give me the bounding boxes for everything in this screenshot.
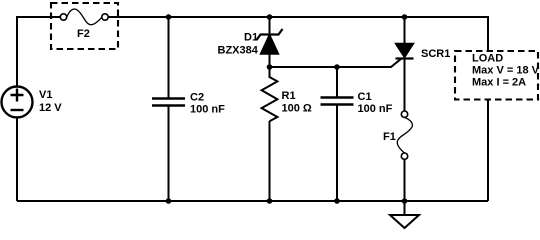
wire: C1 top lead bbox=[336, 67, 338, 97]
wire: D1 anode to gate-rail node bbox=[269, 54, 271, 78]
label D1 value bbox=[218, 32, 259, 57]
wire: top rail from F2 to LOAD corner bbox=[108, 17, 488, 51]
fuse F2 bbox=[60, 9, 108, 25]
svg-text:BZX384: BZX384 bbox=[218, 45, 259, 57]
wire: C2 top lead bbox=[168, 17, 170, 98]
wire: R1 bottom lead bbox=[269, 121, 271, 201]
junction: bottom rail / R1 bbox=[267, 198, 273, 204]
svg-text:C1: C1 bbox=[358, 91, 372, 103]
junction: top rail / SCR1 bbox=[402, 14, 408, 20]
junction: top rail / D1 bbox=[267, 14, 273, 20]
junction: bottom rail / C1 bbox=[334, 198, 340, 204]
wire: gate rail to SCR1 gate bbox=[270, 59, 402, 68]
svg-text:V1: V1 bbox=[39, 89, 52, 101]
load enclosure (dashed) bbox=[455, 51, 538, 100]
wire: C1 bottom lead bbox=[336, 105, 338, 201]
label LOAD ratings bbox=[472, 53, 540, 89]
zener diode D1 bbox=[257, 29, 283, 54]
svg-text:100 Ω: 100 Ω bbox=[282, 103, 312, 115]
junction: gate rail / R1 / D1 bbox=[267, 64, 273, 70]
svg-text:F2: F2 bbox=[77, 28, 90, 40]
capacitor C2 bbox=[152, 99, 185, 106]
label C2 value bbox=[190, 92, 225, 116]
svg-text:C2: C2 bbox=[190, 92, 204, 104]
junction: bottom rail / ground bbox=[402, 198, 408, 204]
resistor R1 bbox=[262, 77, 278, 121]
wire: V1 bottom to bottom rail bbox=[16, 118, 18, 202]
junction: gate rail / C1 bbox=[334, 64, 340, 70]
svg-text:F1: F1 bbox=[383, 131, 396, 143]
label C1 value bbox=[358, 91, 393, 115]
fuse F1 bbox=[397, 111, 412, 159]
wire: V1 top to fuse F2 bbox=[17, 17, 61, 87]
capacitor C1 bbox=[321, 98, 354, 105]
voltage source V1 bbox=[2, 87, 33, 118]
wire: F1 to bottom rail bbox=[404, 159, 406, 201]
svg-text:Max I = 2A: Max I = 2A bbox=[472, 77, 526, 89]
wire: C2 bottom lead bbox=[168, 106, 170, 201]
junction: bottom rail / C2 bbox=[166, 198, 172, 204]
svg-text:100 nF: 100 nF bbox=[190, 104, 225, 116]
svg-text:LOAD: LOAD bbox=[472, 53, 503, 65]
svg-text:D1: D1 bbox=[244, 32, 258, 44]
ground bbox=[390, 201, 419, 228]
wire: D1 top lead bbox=[269, 17, 271, 34]
svg-text:R1: R1 bbox=[282, 90, 296, 102]
wire: SCR1 cathode to fuse F1 bbox=[404, 59, 406, 112]
wire: SCR1 anode lead bbox=[404, 17, 406, 44]
wire: LOAD bottom to bottom rail bbox=[487, 100, 489, 202]
svg-text:SCR1: SCR1 bbox=[421, 48, 450, 60]
svg-text:Max V = 18 V: Max V = 18 V bbox=[472, 65, 540, 77]
wire: bottom rail bbox=[17, 200, 488, 202]
thyristor SCR1 bbox=[396, 44, 414, 59]
label V1 value bbox=[39, 89, 62, 114]
junction: top rail / C2 bbox=[166, 14, 172, 20]
svg-text:12 V: 12 V bbox=[39, 102, 62, 114]
svg-text:100 nF: 100 nF bbox=[358, 103, 393, 115]
fuse F2 dashed enclosure bbox=[51, 3, 118, 49]
label R1 value bbox=[282, 90, 312, 115]
